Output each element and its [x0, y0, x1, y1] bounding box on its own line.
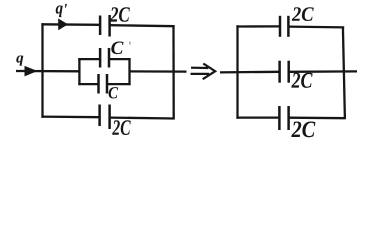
wire: left outer vertical of left circuit	[41, 23, 43, 118]
wire: middle wire with left stub (right circuit)	[220, 71, 279, 74]
wire: top wire right segment (left circuit)	[110, 25, 174, 26]
label 2C (bottom branch capacitor, right circuit)	[291, 122, 315, 138]
arrowhead for charge q on middle wire	[25, 67, 36, 76]
wire: box bottom branch right segment	[108, 83, 131, 85]
label 2C (bottom branch capacitor, left circuit)	[112, 120, 130, 135]
wire: bottom wire right segment (right circuit)	[289, 117, 345, 120]
label C (upper capacitor of middle parallel pair)	[111, 41, 123, 54]
label 2C (middle branch capacitor, right circuit)	[291, 73, 312, 88]
wire: box right connector vertical	[128, 58, 130, 85]
wire: middle wire right segment with right stub (right circuit)	[289, 70, 357, 73]
implication arrow (double arrow) between circuits	[191, 64, 216, 80]
wire: bottom wire left segment (right circuit)	[236, 116, 278, 118]
wire: right outer vertical of left circuit	[172, 25, 174, 119]
wire: top wire right segment (right circuit)	[289, 25, 344, 28]
label C (lower capacitor of middle parallel pair)	[109, 87, 118, 98]
label 2C (top branch capacitor, right circuit)	[292, 7, 314, 21]
wire: box bottom branch left segment	[78, 83, 98, 85]
capacitor 2C (top branch, left circuit)	[100, 15, 110, 37]
wire: bottom wire left segment (left circuit)	[41, 115, 99, 118]
wire: middle wire from q input to box (left circuit)	[16, 70, 80, 73]
wire: box top branch right segment	[110, 58, 131, 60]
capacitor 2C (bottom branch, left circuit)	[100, 105, 110, 130]
stray scan mark near C label	[129, 42, 132, 45]
wire: box left connector vertical	[78, 58, 80, 85]
wire: right outer vertical of right circuit	[343, 27, 345, 119]
capacitor 2C (top branch, right circuit)	[280, 16, 288, 37]
wire: bottom wire right segment (left circuit)	[110, 116, 174, 119]
wire: box top branch left segment	[78, 58, 99, 60]
label 2C (top branch capacitor, left circuit)	[110, 7, 130, 22]
wire: middle wire from box to beyond right vertical (left circuit)	[130, 70, 187, 72]
wire: top wire left segment (left circuit)	[41, 23, 99, 26]
capacitor 2C (bottom branch, right circuit)	[279, 106, 288, 130]
wire: top wire left segment (right circuit)	[236, 25, 279, 27]
capacitor C (box bottom branch)	[99, 74, 108, 94]
label q' (top branch charge)	[56, 4, 67, 17]
wire: left outer vertical of right circuit	[236, 25, 238, 118]
capacitor 2C (middle branch, right circuit)	[280, 61, 289, 83]
arrowhead for charge q' on top wire	[59, 19, 67, 29]
label q (input charge)	[16, 56, 23, 66]
capacitor C (box top branch)	[100, 48, 109, 68]
